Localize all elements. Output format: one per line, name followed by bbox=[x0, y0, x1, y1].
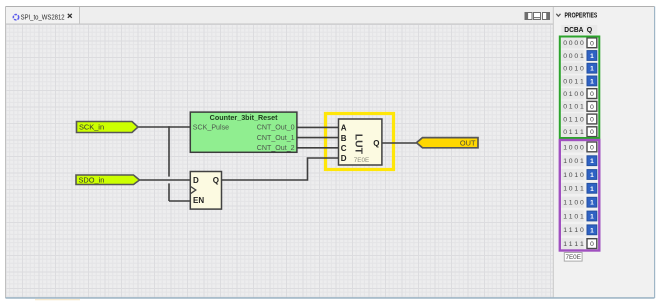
svg-text:1110: 1110 bbox=[563, 227, 584, 234]
LUT table row 0010 bbox=[561, 63, 597, 74]
counter pin CNT_Out_2 bbox=[257, 144, 295, 152]
table header DCBA bbox=[561, 25, 583, 35]
svg-text:0: 0 bbox=[590, 117, 594, 124]
svg-text:0100: 0100 bbox=[563, 91, 584, 98]
layout icon left-panel bbox=[525, 13, 532, 20]
LUT pin B bbox=[341, 134, 347, 143]
flip-flop pin Q bbox=[213, 176, 219, 185]
LUT table row 1000 bbox=[561, 141, 597, 152]
output port OUT bbox=[417, 138, 479, 148]
group border upper nibble (purple) bbox=[560, 140, 600, 251]
group border lower nibble (green) bbox=[560, 37, 600, 139]
status hint strip bbox=[35, 299, 80, 300]
flip-flop pin D bbox=[193, 176, 199, 185]
svg-text:Q: Q bbox=[213, 176, 219, 185]
svg-text:SDO_in: SDO_in bbox=[79, 175, 105, 184]
wire SCK_in to counter SCK_Pulse bbox=[138, 126, 190, 128]
input port SDO_in bbox=[76, 175, 140, 185]
svg-text:Counter_3bit_Reset: Counter_3bit_Reset bbox=[210, 113, 279, 122]
properties header chevron bbox=[556, 14, 560, 16]
svg-text:DCBA: DCBA bbox=[564, 27, 583, 34]
svg-text:OUT: OUT bbox=[460, 138, 476, 147]
svg-text:0101: 0101 bbox=[563, 104, 584, 111]
svg-text:1: 1 bbox=[590, 53, 594, 60]
svg-text:1100: 1100 bbox=[563, 200, 584, 207]
svg-text:0: 0 bbox=[590, 40, 594, 47]
svg-text:0001: 0001 bbox=[563, 53, 584, 60]
svg-text:CNT_Out_0: CNT_Out_0 bbox=[257, 124, 295, 132]
table header Q bbox=[586, 25, 597, 35]
svg-text:1010: 1010 bbox=[563, 172, 584, 179]
svg-text:1: 1 bbox=[590, 186, 594, 193]
svg-text:D: D bbox=[341, 154, 347, 163]
properties panel bbox=[553, 7, 654, 298]
svg-text:0: 0 bbox=[590, 129, 594, 136]
LUT pin Q bbox=[373, 139, 379, 148]
svg-text:D: D bbox=[193, 176, 199, 185]
svg-text:0011: 0011 bbox=[563, 78, 584, 85]
svg-text:1101: 1101 bbox=[563, 213, 584, 220]
svg-text:CNT_Out_1: CNT_Out_1 bbox=[257, 134, 295, 142]
svg-text:7E0E: 7E0E bbox=[565, 254, 580, 261]
svg-text:1: 1 bbox=[590, 158, 594, 165]
svg-text:0: 0 bbox=[590, 144, 594, 151]
svg-text:0: 0 bbox=[590, 241, 594, 248]
svg-text:1000: 1000 bbox=[563, 144, 584, 151]
svg-text:0010: 0010 bbox=[563, 66, 584, 73]
flip-flop pin EN bbox=[193, 196, 204, 205]
input port SCK_in bbox=[77, 122, 139, 133]
tab bar bbox=[6, 7, 554, 24]
LUT value 7E0E bbox=[354, 157, 369, 164]
wire DFF Q to LUT input D bbox=[222, 158, 339, 180]
LUT table row 1110 bbox=[561, 224, 597, 235]
counter pin CNT_Out_0 bbox=[257, 124, 295, 132]
layout icon right-panel bbox=[543, 13, 550, 20]
LUT table row 0111 bbox=[561, 126, 597, 137]
svg-text:SCK_in: SCK_in bbox=[79, 122, 104, 131]
tab title SPI_to_WS2812 bbox=[21, 13, 65, 22]
LUT table row 0110 bbox=[561, 113, 597, 124]
LUT table row 0101 bbox=[561, 101, 597, 112]
properties header title bbox=[565, 13, 598, 20]
wire LUT Q to OUT bbox=[382, 142, 417, 144]
wire SCK branch to DFF EN bbox=[169, 200, 190, 202]
svg-text:EN: EN bbox=[193, 196, 204, 205]
LUT table row 1011 bbox=[561, 183, 597, 194]
layout icon bottom-panel bbox=[534, 13, 541, 20]
svg-text:A: A bbox=[341, 124, 347, 133]
LUT U1 body bbox=[339, 119, 382, 165]
LUT table row 0000 bbox=[561, 37, 597, 48]
LUT table row 0001 bbox=[561, 50, 597, 61]
svg-text:0110: 0110 bbox=[563, 116, 584, 123]
wire junction branch down from SCK net bbox=[168, 126, 170, 201]
LUT table row 1001 bbox=[561, 155, 597, 166]
svg-text:0: 0 bbox=[590, 104, 594, 111]
flip-flop Q1 D-FF with enable bbox=[190, 172, 221, 210]
counter pin SCK_Pulse bbox=[193, 124, 229, 132]
svg-text:C: C bbox=[341, 144, 347, 153]
svg-text:1: 1 bbox=[590, 172, 594, 179]
LUT pin A bbox=[341, 124, 347, 133]
svg-text:1: 1 bbox=[590, 78, 594, 85]
LUT table row 1111 bbox=[561, 238, 597, 249]
wire SDO_in to DFF D bbox=[140, 179, 191, 181]
svg-text:1011: 1011 bbox=[563, 186, 584, 193]
LUT pin C bbox=[341, 144, 347, 153]
svg-text:1: 1 bbox=[590, 66, 594, 73]
counter block Counter_3bit_Reset bbox=[190, 112, 297, 152]
svg-text:1: 1 bbox=[590, 227, 594, 234]
LUT table row 1010 bbox=[561, 169, 597, 180]
tab close button bbox=[68, 14, 72, 18]
svg-text:Q: Q bbox=[373, 139, 379, 148]
svg-text:Q: Q bbox=[587, 27, 593, 34]
LUT hex value box 7E0E bbox=[564, 253, 582, 262]
svg-text:7E0E: 7E0E bbox=[354, 157, 369, 164]
svg-text:LUT: LUT bbox=[353, 134, 364, 155]
svg-text:CNT_Out_2: CNT_Out_2 bbox=[257, 144, 295, 152]
svg-text:0111: 0111 bbox=[563, 129, 584, 136]
tab icon bbox=[13, 15, 18, 20]
svg-text:SCK_Pulse: SCK_Pulse bbox=[193, 124, 229, 132]
svg-text:0000: 0000 bbox=[563, 40, 584, 47]
wire CNT_Out_1 to LUT input B bbox=[297, 137, 339, 139]
svg-text:PROPERTIES: PROPERTIES bbox=[565, 13, 598, 20]
LUT table row 0100 bbox=[561, 88, 597, 99]
LUT label bbox=[353, 134, 364, 155]
counter pin CNT_Out_1 bbox=[257, 134, 295, 142]
svg-text:1001: 1001 bbox=[563, 158, 584, 165]
wire CNT_Out_0 to LUT input A bbox=[297, 126, 339, 128]
schematic canvas grid bbox=[6, 24, 554, 298]
LUT pin D bbox=[341, 154, 347, 163]
LUT table row 0011 bbox=[561, 75, 597, 86]
svg-text:1: 1 bbox=[590, 200, 594, 207]
svg-text:B: B bbox=[341, 134, 347, 143]
LUT table row 1101 bbox=[561, 210, 597, 221]
svg-text:1111: 1111 bbox=[563, 241, 584, 248]
LUT table row 1100 bbox=[561, 197, 597, 208]
flip-flop clock input chevron bbox=[191, 187, 196, 194]
svg-text:0: 0 bbox=[590, 91, 594, 98]
svg-text:1: 1 bbox=[590, 214, 594, 221]
selection highlight around LUT U1 bbox=[326, 114, 394, 170]
svg-text:SPI_to_WS2812: SPI_to_WS2812 bbox=[21, 13, 65, 22]
wire CNT_Out_2 to LUT input C bbox=[297, 147, 339, 149]
